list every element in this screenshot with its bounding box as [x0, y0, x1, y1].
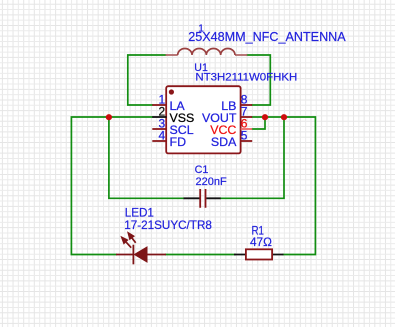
svg-text:SDA: SDA [211, 135, 237, 149]
svg-text:220nF: 220nF [196, 176, 227, 188]
svg-text:C1: C1 [195, 164, 209, 176]
svg-text:47Ω: 47Ω [250, 235, 272, 249]
svg-text:5: 5 [241, 129, 248, 143]
svg-text:25X48MM_NFC_ANTENNA: 25X48MM_NFC_ANTENNA [188, 30, 346, 44]
svg-text:NT3H2111W0FHKH: NT3H2111W0FHKH [195, 72, 297, 84]
svg-text:17-21SUYC/TR8: 17-21SUYC/TR8 [124, 219, 212, 232]
svg-text:LED1: LED1 [125, 207, 154, 220]
svg-text:FD: FD [170, 135, 187, 149]
svg-text:4: 4 [159, 129, 166, 143]
